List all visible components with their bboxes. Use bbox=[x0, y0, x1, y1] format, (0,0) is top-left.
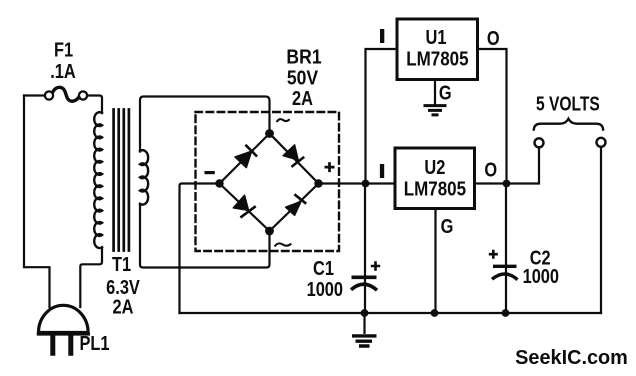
brace over 5 VOLTS terminals bbox=[534, 119, 604, 131]
fuse F1 body bbox=[45, 91, 87, 99]
wire: bridge positive node to U2 input bbox=[319, 182, 396, 184]
plus label at bridge positive bbox=[325, 162, 335, 172]
svg-text:50V: 50V bbox=[287, 66, 319, 88]
svg-text:BR1: BR1 bbox=[286, 45, 321, 67]
transformer T1 core bars bbox=[114, 110, 129, 251]
wire: U2 output to terminal bbox=[475, 147, 540, 183]
svg-text:U2: U2 bbox=[424, 155, 445, 178]
svg-text:O: O bbox=[487, 26, 500, 49]
ground symbol below U1 bbox=[424, 106, 447, 115]
svg-text:U1: U1 bbox=[426, 26, 447, 49]
diode D1 (bridge left-top) bbox=[235, 145, 257, 168]
junction: U1 output / U2 output bbox=[503, 180, 511, 188]
svg-text:G: G bbox=[441, 214, 454, 237]
svg-text:PL1: PL1 bbox=[79, 331, 109, 354]
wire: secondary top to bridge AC1 (top node) bbox=[140, 97, 270, 152]
C1 polarity plus bbox=[371, 261, 380, 270]
node: bridge negative bbox=[215, 179, 223, 187]
svg-text:C1: C1 bbox=[313, 256, 334, 279]
svg-text:2A: 2A bbox=[292, 87, 313, 110]
svg-text:G: G bbox=[439, 81, 452, 104]
wire: secondary bottom under bridge to AC2 (bottom node) bbox=[140, 204, 270, 268]
transformer T1 secondary winding bbox=[140, 150, 148, 204]
wire: primary coil bottom, jog left into plug bbox=[80, 248, 102, 308]
plug PL1 base line bbox=[37, 332, 90, 335]
svg-text:SeekIC.com: SeekIC.com bbox=[515, 347, 628, 369]
svg-text:.1A: .1A bbox=[50, 60, 76, 83]
bridge diamond wires bbox=[220, 134, 319, 232]
junction: C2 ground on bus bbox=[502, 309, 510, 317]
svg-text:LM7805: LM7805 bbox=[406, 47, 468, 70]
wire: U1 output down to U2 output rail bbox=[478, 49, 507, 184]
svg-text:I: I bbox=[378, 161, 386, 183]
diode D4 (bridge bottom-right) bbox=[286, 194, 307, 215]
junction: U2 ground on bus bbox=[431, 309, 439, 317]
junction: C1 ground on bus bbox=[361, 309, 369, 317]
diode D3 (bridge left-bottom) bbox=[233, 195, 255, 217]
svg-text:5 VOLTS: 5 VOLTS bbox=[536, 92, 600, 114]
diode D2 (bridge top-right) bbox=[283, 145, 304, 167]
svg-text:2A: 2A bbox=[113, 295, 134, 318]
regulator U1 box bbox=[397, 19, 478, 80]
regulator U2 box bbox=[395, 148, 475, 209]
wire: C1 branch from input rail down to bus bbox=[364, 184, 366, 314]
fuse F1 wave link bbox=[53, 87, 80, 101]
junction: U1 input / U2 input / C1 bbox=[362, 180, 370, 188]
wire: right output terminal down to bus bbox=[600, 147, 602, 313]
node: bridge AC1 (top) bbox=[265, 129, 274, 138]
wire: U1 input from junction bbox=[366, 49, 398, 184]
transformer T1 primary winding bbox=[94, 112, 102, 248]
svg-text:F1: F1 bbox=[54, 38, 73, 61]
svg-text:T1: T1 bbox=[112, 253, 131, 276]
minus label at bridge negative bbox=[205, 171, 215, 174]
wire: U2 ground pin down to bus bbox=[434, 209, 436, 314]
output terminal right bbox=[597, 138, 606, 147]
wire: C2 branch from output rail down to bus bbox=[505, 184, 507, 314]
wire: fuse right to transformer primary top bbox=[87, 96, 102, 114]
wire: bridge negative node to ground bus bbox=[180, 184, 220, 314]
C2 polarity plus bbox=[489, 250, 498, 259]
output terminal left bbox=[535, 138, 544, 147]
squiggle near bridge AC1 bbox=[277, 119, 290, 122]
svg-text:1000: 1000 bbox=[307, 278, 343, 301]
wire: U1 ground pin bbox=[434, 80, 436, 105]
svg-text:O: O bbox=[484, 158, 497, 181]
bridge rectifier BR1 dashed outline bbox=[196, 112, 340, 251]
wire: ground bus bbox=[180, 312, 602, 314]
svg-text:I: I bbox=[378, 26, 386, 48]
capacitor C2 symbol bbox=[492, 266, 518, 279]
svg-text:LM7805: LM7805 bbox=[404, 177, 466, 200]
squiggle near bridge AC2 bbox=[275, 243, 292, 246]
node: bridge positive bbox=[314, 179, 322, 187]
plug PL1 prongs bbox=[53, 336, 71, 356]
node: bridge AC2 (bottom) bbox=[265, 227, 274, 236]
plug PL1 dome bbox=[39, 305, 89, 332]
wire: left vertical down, jog right into plug bbox=[24, 96, 50, 308]
wire: AC top-left from fuse left to corner bbox=[24, 94, 45, 96]
ground symbol: main ground below bus bbox=[352, 313, 377, 346]
svg-text:1000: 1000 bbox=[523, 264, 559, 287]
capacitor C1 symbol bbox=[351, 277, 377, 290]
